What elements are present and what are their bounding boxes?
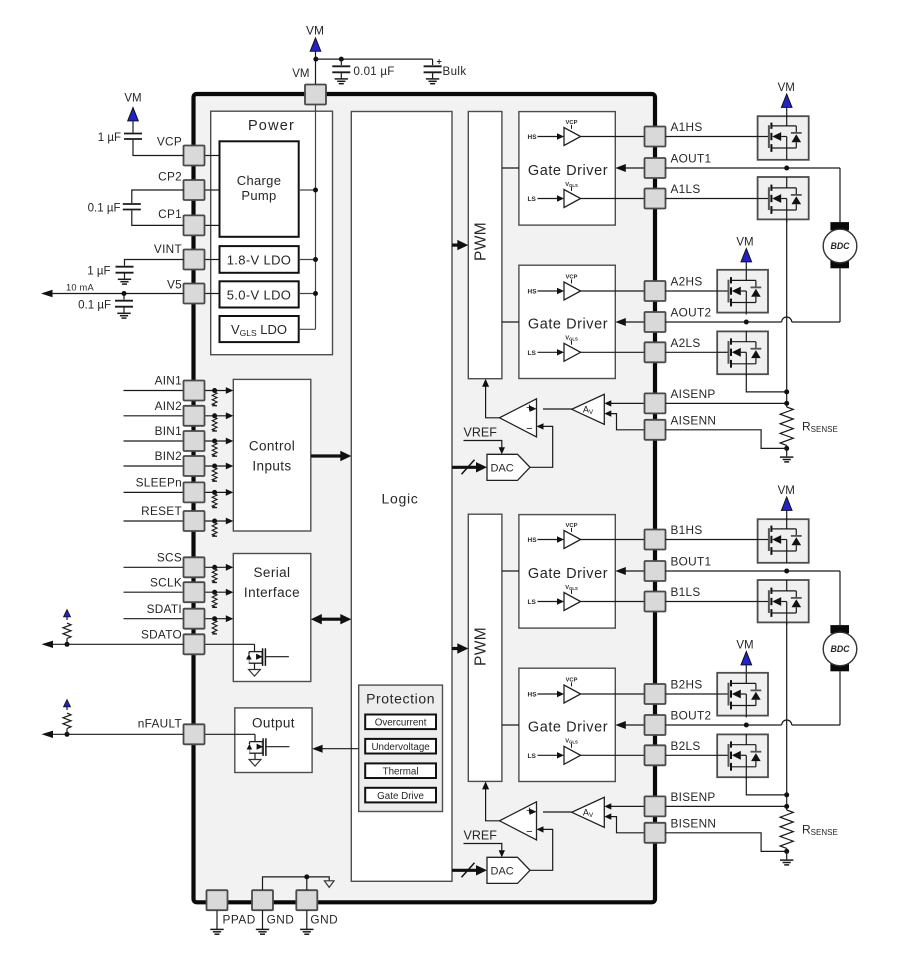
wire B2LS gate [666,754,718,756]
svg-text:Output: Output [252,716,295,731]
wire OUT feedback B1 [622,570,645,572]
wire CP2 loop [132,190,184,203]
junction BOUT2 [744,723,749,728]
block protection Thermal [365,763,436,778]
svg-text:1 µF: 1 µF [87,266,110,278]
mosfet A2 low-side [717,351,728,353]
buffer HS B1 [564,531,581,549]
svg-text:BDC: BDC [830,241,850,251]
svg-text:A2HS: A2HS [671,275,703,289]
svg-text:AOUT2: AOUT2 [671,306,712,320]
wire CP1 loop [132,210,184,225]
wire VM top horizontal [316,58,433,60]
ground RSENSE A [780,456,793,458]
wire AIN1 external lead [124,390,184,392]
pin RESET [184,511,205,531]
pin A2HS [645,281,666,301]
block VGLS LDO [220,316,299,342]
pin CP1 [184,215,205,235]
resistor pulldown AIN1 [212,388,217,393]
wire C-VCP to VCP pin [133,140,184,156]
block Control Inputs [233,379,310,531]
svg-text:AIN1: AIN1 [155,374,182,388]
pin CP2 [184,180,205,200]
wire PPAD to ground [216,911,218,930]
svg-text:Protection: Protection [366,690,435,706]
wire GND2 to tie rail [306,877,308,890]
wire BOUT2 net [666,724,782,726]
wire OUT feedback A2 [622,321,645,323]
svg-text:V5: V5 [167,278,182,292]
resistor pulldown SCS [212,565,217,570]
svg-text:Gate Driver: Gate Driver [528,566,608,582]
wire GND1 to ground [262,911,264,930]
mosfet B1 high-side [758,539,769,541]
junction VM-chargepump [313,188,318,193]
resistor pullup SDATO [66,639,68,645]
supply arrow VM A2 [741,249,752,262]
svg-text:VM: VM [778,485,795,497]
bus Logic to DAC A [452,466,479,469]
svg-text:Gate Driver: Gate Driver [528,316,608,332]
svg-text:LS: LS [528,753,537,760]
svg-text:1 µF: 1 µF [98,132,121,144]
svg-text:CP1: CP1 [158,207,182,221]
ground RSENSE B [780,859,793,861]
wire VM to A2H drain [745,262,747,270]
pin BISENN [645,823,666,843]
svg-text:B2HS: B2HS [671,678,703,692]
svg-text:A1HS: A1HS [671,120,703,134]
resistor pulldown SLEEPn [212,490,217,495]
block protection Overcurrent [365,715,436,730]
mosfet box A1 low-side [758,177,809,219]
svg-text:LS: LS [528,196,537,203]
svg-text:SDATI: SDATI [147,602,182,616]
wire A1LS gate [666,198,758,200]
capacitor C-CP 0.1uF [123,203,141,205]
wire BIN2 external lead [124,465,184,467]
supply arrow SDATO pullup [64,610,71,617]
wire B2HS gate [666,693,718,695]
wire BIN1 to Control Inputs [204,440,227,442]
wire V5 out with 10 mA arrow [48,293,184,295]
buffer HS A1 [564,128,581,146]
pin V5 [184,284,205,304]
pin AISENN [645,420,666,440]
pin PPAD [207,890,228,910]
wire AV to comparator A [543,408,572,410]
buffer LS A2 [564,343,581,361]
svg-text:Pump: Pump [241,188,276,203]
wire A2LS gate [666,351,718,353]
pin BOUT1 [645,561,666,581]
svg-text:SCS: SCS [157,551,182,565]
svg-text:Gate Driver: Gate Driver [528,163,608,179]
pin B2LS [645,745,666,765]
buffer LS B2 [564,746,581,764]
mosfet box B2 high-side [717,673,768,716]
junction VM cap 0.01uF [339,57,344,62]
svg-text:Interface: Interface [244,585,300,600]
capacitor C-VM 0.01uF with ground [340,59,342,65]
svg-text:+: + [437,57,442,67]
svg-text:SDATO: SDATO [141,628,182,642]
block Power [211,111,333,355]
bus Control Inputs to Logic [311,454,344,457]
svg-text:Control: Control [249,439,295,454]
ground GND1 [256,928,269,930]
resistor pulldown SCLK [212,590,217,595]
block Protection [359,685,443,811]
block 5.0-V LDO [220,281,299,307]
wire HS input A1 [538,136,558,138]
supply arrow VM B2 [741,652,752,665]
wire VCP to Charge Pump [204,155,220,157]
wire SDATO internal [204,643,255,645]
mosfet B2 low-side [717,754,728,756]
junction sense Ba [784,792,789,797]
svg-text:−: − [526,423,532,435]
wire PWM link B1 [502,570,519,572]
capacitor C-VINT 1uF with ground [124,260,126,266]
pin SDATO [184,634,205,654]
svg-text:1.8-V LDO: 1.8-V LDO [227,253,292,268]
mosfet B1 low-side [758,601,769,603]
wire VREF to DAC B [464,844,502,851]
wire SDATO external [47,643,184,645]
wire LS input A1 [538,198,558,200]
wire pullup SDATO to supply [66,617,68,621]
pin VM top [305,85,326,105]
resistor pulldown BIN1 [212,439,217,444]
wire AIN2 external lead [124,415,184,417]
mosfet box B1 low-side [758,580,809,622]
wire PWM link A1 [502,167,519,169]
pin BISENP [645,796,666,816]
resistor pulldown BIN2 [212,464,217,469]
buffer LS A1 [564,190,581,208]
bus Logic to PWM B [452,647,461,650]
pin AOUT2 [645,312,666,332]
dac DAC A [487,454,530,480]
pin GND2 [296,890,317,910]
junction BOUT1 [784,569,789,574]
svg-text:HS: HS [528,692,538,699]
pin A1HS [645,127,666,147]
wire VM to A1H drain [786,107,788,116]
svg-text:HS: HS [528,134,538,141]
svg-text:VCP: VCP [157,135,182,149]
wire HS output A1 [581,136,645,138]
wire AISENP net [666,402,787,404]
supply arrow VM top [310,38,321,51]
svg-text:10 mA: 10 mA [66,283,94,293]
svg-text:Power: Power [248,118,295,134]
svg-text:Gate Driver: Gate Driver [528,719,608,735]
pin AIN1 [184,381,205,401]
block Gate Driver B2 [519,668,615,781]
ground GND2 [300,928,313,930]
wire AOUT1 net [666,167,841,169]
junction GND tie [304,874,309,879]
resistor pullup nFAULT [66,729,68,735]
svg-text:Logic: Logic [382,491,419,507]
svg-text:0.01 µF: 0.01 µF [354,66,395,78]
wire LS output B2 [581,754,645,756]
wire VM top vertical [315,51,317,84]
wire DAC to comparator minus A [530,426,553,467]
wire VM to B1H drain [786,510,788,519]
mosfet A1 high-side [758,136,769,138]
wire LS input B2 [538,754,558,756]
wire comparator out to PWM B [486,788,500,821]
wire VINT to C-VINT [125,259,184,262]
supply arrow VM at VCP [128,108,139,121]
resistor RSENSE A [780,407,793,445]
wire HS input A2 [538,290,558,292]
wire LS output B1 [581,601,645,603]
wire VGLS LDO to VM rail [299,328,316,330]
wire VREF to DAC A [464,441,502,448]
svg-text:SLEEPn: SLEEPn [136,476,182,490]
wire nFAULT internal [204,733,255,735]
wire BOUT1 net [666,570,841,572]
block PWM B [468,514,502,781]
wire AISENN net [666,430,787,449]
wire 1.8-V LDO to VM rail [299,259,316,261]
wire AOUT2 net [666,321,782,323]
block Logic [351,112,452,882]
svg-text:Gate Drive: Gate Drive [377,791,424,802]
svg-text:−: − [526,826,532,838]
wire A2HS gate [666,290,718,292]
wire A2 source to sense [746,374,786,392]
pin AIN2 [184,406,205,426]
junction AOUT1 [784,166,789,171]
svg-text:VGLS LDO: VGLS LDO [231,322,287,338]
pin nFAULT [184,724,205,744]
svg-text:B1HS: B1HS [671,523,703,537]
svg-text:A1LS: A1LS [671,182,701,196]
wire pullup nFAULT to supply [66,707,68,711]
svg-text:HS: HS [528,289,538,296]
block Charge Pump [220,141,299,237]
wire BIN2 to Control Inputs [204,465,227,467]
wire nFAULT external [47,733,184,735]
svg-text:A2LS: A2LS [671,336,701,350]
dac DAC B [487,857,530,883]
wire sense B to ground [786,851,788,859]
block Gate Driver B1 [519,515,615,629]
wire AISENP to AV B [611,805,645,807]
motor BDC B [830,625,849,633]
pin A1LS [645,189,666,209]
wire LS output A1 [581,198,645,200]
wire Charge Pump to VM rail [299,189,316,191]
svg-text:AISENN: AISENN [671,413,717,427]
svg-text:Bulk: Bulk [443,66,467,78]
junction V5-cap [122,291,127,296]
svg-text:VM: VM [124,93,141,105]
resistor RSENSE B [780,810,793,848]
svg-text:RESET: RESET [141,504,182,518]
svg-text:5.0-V LDO: 5.0-V LDO [227,288,292,303]
wire B1LS gate [666,601,758,603]
wire B2 source to sense [746,777,786,795]
svg-text:DAC: DAC [491,463,514,475]
svg-text:Undervoltage: Undervoltage [371,742,430,753]
wire VM internal rail [315,105,317,329]
block 1.8-V LDO [220,246,299,273]
pin SCLK [184,582,205,602]
svg-text:AOUT1: AOUT1 [671,152,712,166]
mosfet box A2 high-side [717,270,768,313]
wire RSENSE B bottom [786,848,788,851]
svg-text:VM: VM [306,24,324,38]
buffer LS B1 [564,593,581,611]
svg-text:B2LS: B2LS [671,739,701,753]
wire VINT to LDO [204,259,220,261]
wire SCLK external lead [124,591,184,593]
svg-text:0.1 µF: 0.1 µF [78,300,111,312]
svg-text:Thermal: Thermal [383,766,419,777]
svg-text:VM: VM [778,82,795,94]
wire DAC to comparator minus B [530,829,553,870]
svg-text:AISENP: AISENP [671,387,716,401]
svg-text:Inputs: Inputs [252,459,291,474]
wire RESET to Control Inputs [204,520,227,522]
signal ground symbol [324,881,334,888]
wire BISENN net [666,833,787,852]
wire BIN1 external lead [124,440,184,442]
svg-text:B1LS: B1LS [671,585,701,599]
resistor pulldown SDATI [212,616,217,621]
junction VM-ldo18 [313,257,318,262]
pin GND1 [252,890,273,910]
wire B1 source down [786,622,788,810]
junction sense Ab [784,401,789,406]
buffer HS A2 [564,282,581,300]
wire GND2 to ground [306,911,308,930]
supply arrow VM A1 [781,94,792,107]
wire OUT feedback A1 [622,167,645,169]
pin BIN2 [184,456,205,476]
wire SCS external lead [124,566,184,568]
svg-text:VM: VM [736,237,753,249]
comparator B [500,802,537,840]
junction sense Aa [784,389,789,394]
block protection Undervoltage [365,739,436,754]
svg-text:VREF: VREF [464,829,498,843]
svg-text:VM: VM [292,68,309,80]
svg-text:AIN2: AIN2 [155,399,182,413]
wire GND tie rail [263,877,330,890]
wire AV to comparator B [543,811,572,813]
wire PWM link A2 [502,321,519,323]
svg-text:SCLK: SCLK [150,575,182,589]
wire AIN2 to Control Inputs [204,415,227,417]
wire BISENP net [666,805,787,807]
wire AISENN to AV A [611,414,645,430]
junction VM top [313,57,318,62]
svg-text:Serial: Serial [254,565,291,580]
wire HS output A2 [581,290,645,292]
wire VM to B2H drain [745,665,747,673]
svg-text:LS: LS [528,599,537,606]
pin AOUT1 [645,158,666,178]
wire SDATI external lead [124,618,184,620]
svg-text:PWM: PWM [473,222,490,261]
svg-text:BIN1: BIN1 [155,424,182,438]
wire A1HS gate [666,136,758,138]
bus Logic to PWM A [452,244,461,247]
mosfet B2 high-side [717,693,728,695]
motor BDC A [830,222,849,230]
junction VM-ldo50 [313,291,318,296]
mosfet box B1 high-side [758,519,809,563]
wire CP2 to Charge Pump [204,189,220,191]
capacitor C-VCP 1uF [124,133,142,135]
junction nFAULT pullup [65,732,70,737]
IC main outline U1 [194,94,656,902]
wire SLEEPn external lead [124,491,184,493]
mosfet SDATO open-drain [254,644,256,651]
wire LS input B1 [538,601,558,603]
svg-text:HS: HS [528,537,538,544]
svg-text:0.1 µF: 0.1 µF [88,203,121,215]
capacitor C-Bulk with ground [432,59,434,65]
wire AISENN to AV B [611,817,645,833]
resistor pulldown AIN2 [212,413,217,418]
capacitor C-V5 0.1uF with ground [123,294,125,300]
svg-text:DAC: DAC [491,866,514,878]
bus Logic to DAC B [452,869,479,872]
svg-text:Charge: Charge [237,173,281,188]
wire HS output B1 [581,539,645,541]
wire CP1 to Charge Pump [204,224,220,226]
svg-text:VREF: VREF [464,426,498,440]
pin SLEEPn [184,482,205,502]
block Output [235,708,312,773]
pin BOUT2 [645,715,666,735]
svg-text:BOUT2: BOUT2 [671,709,712,723]
wire HS input B1 [538,539,558,541]
wire VM to C-VCP [132,121,134,133]
mosfet box A2 low-side [717,331,768,374]
wire PWM link B2 [502,724,519,726]
amp AV A [572,394,605,424]
comparator A [500,399,537,437]
pin BIN1 [184,431,205,451]
wire LS output A2 [581,351,645,353]
wire RESET external lead [124,520,184,522]
wire AISENP to AV A [611,402,645,404]
wire LS input A2 [538,351,558,353]
buffer HS B2 [564,685,581,703]
svg-text:GND: GND [310,913,338,927]
wire Protection to Output [320,748,359,750]
pin SDATI [184,609,205,629]
junction SDATO pullup [65,642,70,647]
svg-text:Overcurrent: Overcurrent [375,718,427,729]
wire V5 to LDO [204,293,220,295]
svg-text:BOUT1: BOUT1 [671,555,712,569]
junction sense Ac [784,446,789,451]
mosfet A1 low-side [758,198,769,200]
pin A2LS [645,342,666,362]
block Gate Driver A2 [519,265,615,378]
